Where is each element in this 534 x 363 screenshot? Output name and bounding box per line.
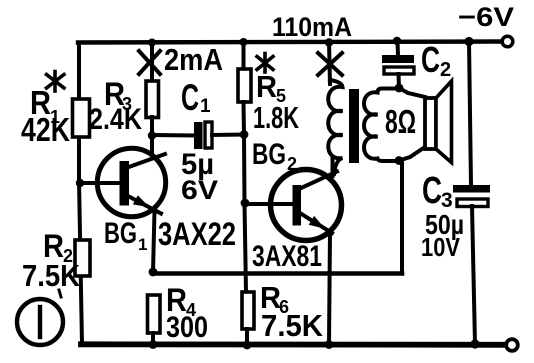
- label C3 value 50u: [425, 209, 464, 240]
- svg-text:−6V: −6V: [458, 2, 514, 32]
- svg-text:BG: BG: [104, 217, 137, 250]
- label -6V supply: [458, 2, 514, 32]
- wire R5 branch: [242, 42, 246, 69]
- node R6 on bottom rail: [243, 341, 252, 350]
- label R2: [43, 228, 73, 266]
- current break mark x 110mA: [318, 53, 342, 75]
- svg-text:C: C: [181, 77, 199, 118]
- label 110mA: [272, 12, 352, 42]
- label R5: [256, 69, 286, 106]
- svg-text:300: 300: [166, 311, 208, 344]
- svg-text:10V: 10V: [421, 232, 461, 262]
- wire top rail: [78, 42, 502, 43]
- label 2mA: [164, 42, 223, 77]
- wire right rail upper: [469, 42, 471, 186]
- capacitor C1: [194, 122, 212, 149]
- node BG1 collector junction: [148, 131, 156, 139]
- label R6: [260, 280, 289, 317]
- label C2: [421, 39, 451, 81]
- label speaker impedance 8ohm: [385, 103, 416, 140]
- svg-text:8Ω: 8Ω: [385, 103, 416, 140]
- transistor Q1 BG1: [97, 148, 165, 216]
- svg-text:C: C: [422, 170, 442, 212]
- wire C1 right lead: [212, 133, 244, 138]
- figure number circled 1: [17, 299, 63, 345]
- svg-text:7.5K: 7.5K: [22, 258, 81, 293]
- asterisk mark for R1: [47, 72, 65, 92]
- node R3 top on rail: [148, 39, 156, 47]
- svg-text:1.8K: 1.8K: [253, 100, 299, 135]
- svg-text:6V: 6V: [181, 175, 218, 205]
- label R2 value 7.5K: [22, 258, 81, 293]
- wire R5 bottom to node: [242, 102, 247, 135]
- node BG2 emitter on bottom rail: [325, 340, 334, 349]
- wire BG2 collector vertical: [331, 158, 335, 176]
- node right rail on bottom rail: [470, 339, 479, 348]
- wire base branch vertical: [242, 135, 247, 205]
- wire base branch to R6: [245, 204, 247, 292]
- wire C2 bottom lead: [397, 74, 402, 88]
- wire R3 bottom to node: [150, 117, 154, 136]
- wire primary top lead: [329, 42, 330, 84]
- label BG1 type 3AX22: [158, 216, 236, 252]
- resistor R1: [73, 99, 90, 137]
- svg-text:7.5K: 7.5K: [261, 308, 324, 343]
- wire bottom rail: [81, 341, 506, 347]
- label R3 value 2.4K: [89, 103, 142, 136]
- inductor transformer primary: [328, 80, 342, 174]
- wire feedback line vertical: [400, 160, 404, 274]
- label R5 value 1.8K: [253, 100, 299, 135]
- label R4: [166, 282, 196, 320]
- wire BG2 base lead: [245, 202, 293, 206]
- label R3: [104, 76, 132, 114]
- wire speaker bottom lead: [399, 147, 425, 161]
- svg-text:1: 1: [200, 96, 211, 117]
- svg-text:2.4K: 2.4K: [89, 103, 142, 136]
- wire C2 top lead: [396, 41, 401, 56]
- wire R6 bottom lead: [245, 329, 249, 345]
- wire R3 branch top: [150, 43, 154, 81]
- node C1 to base junction: [240, 130, 249, 139]
- node R4 on bottom rail: [149, 340, 158, 349]
- node C2 top on rail: [393, 37, 401, 45]
- inductor transformer secondary: [364, 89, 399, 162]
- label BG2 type 3AX81: [252, 240, 322, 273]
- node BG1 emitter junction: [149, 268, 158, 277]
- wire BG1 base lead: [80, 181, 119, 185]
- label C3 voltage 10V: [421, 232, 461, 262]
- svg-text:C: C: [421, 39, 440, 80]
- label C1 voltage 6V: [181, 175, 218, 205]
- wire C1 left lead: [152, 133, 194, 138]
- node speaker loop bottom: [395, 156, 404, 165]
- transistor Q2 BG2: [271, 170, 342, 241]
- wire BG1 emitter vertical: [153, 211, 155, 272]
- asterisk mark for R5: [257, 54, 273, 73]
- node BG2 base junction: [241, 199, 250, 208]
- label BG2: [252, 138, 297, 174]
- node R5 top on rail: [240, 38, 248, 46]
- current break mark x 2mA: [139, 51, 160, 74]
- resistor R2: [75, 240, 90, 276]
- transformer core: [349, 89, 359, 163]
- resistor R3: [146, 81, 159, 118]
- label C1: [181, 77, 211, 118]
- capacitor C3: [453, 185, 490, 207]
- node speaker loop top: [395, 84, 404, 93]
- resistor R4: [148, 295, 161, 333]
- svg-text:2: 2: [440, 59, 451, 81]
- wire feedback line horizontal: [153, 271, 402, 276]
- wire left vertical: [79, 43, 82, 344]
- resistor R6: [242, 292, 254, 329]
- capacitor C2: [382, 55, 414, 74]
- speaker LS: [425, 81, 452, 163]
- wire collector vertical: [150, 135, 154, 158]
- terminal bottom right: [506, 339, 518, 351]
- svg-text:1: 1: [138, 235, 147, 254]
- label C3: [422, 170, 453, 212]
- label R1 value 42K: [21, 111, 70, 148]
- svg-text:110mA: 110mA: [272, 12, 352, 42]
- wire speaker top lead: [399, 88, 425, 97]
- svg-text:R: R: [256, 69, 277, 104]
- label R1: [30, 84, 60, 127]
- tick mark under 7.5K: [59, 290, 61, 297]
- svg-text:3AX81: 3AX81: [252, 240, 322, 273]
- resistor R5: [238, 69, 251, 102]
- node base of BG1: [76, 179, 84, 187]
- svg-text:BG: BG: [252, 138, 286, 171]
- svg-text:3AX22: 3AX22: [158, 216, 236, 252]
- node right rail top: [464, 37, 473, 46]
- label BG1: [104, 217, 147, 254]
- wire R4 bottom lead: [151, 333, 155, 344]
- wire right rail lower: [472, 206, 475, 344]
- svg-text:2mA: 2mA: [164, 42, 223, 77]
- label R6 value 7.5K: [261, 308, 324, 343]
- node transformer branch on rail: [325, 38, 333, 46]
- label R4 value 300: [166, 311, 208, 344]
- label C1 value 5u: [181, 148, 214, 181]
- wire BG2 emitter vertical: [329, 232, 330, 345]
- svg-text:42K: 42K: [21, 111, 70, 148]
- terminal -6V: [502, 36, 513, 47]
